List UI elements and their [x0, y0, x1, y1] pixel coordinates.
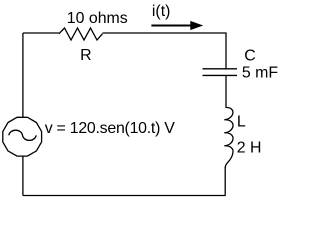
- svg-text:i(t): i(t): [152, 3, 171, 20]
- svg-text:2 H: 2 H: [237, 140, 262, 157]
- wire left lower (source to bottom wire): [22, 157, 24, 196]
- inductor L coil: [224, 108, 233, 169]
- svg-text:R: R: [80, 47, 91, 64]
- bottom wire: [23, 195, 226, 197]
- wire left upper (top wire to source): [22, 33, 24, 117]
- capacitor C top plate: [203, 68, 238, 70]
- wire right upper (top to capacitor): [225, 33, 227, 69]
- svg-text:v = 120.sen(10.t) V: v = 120.sen(10.t) V: [45, 120, 176, 137]
- wire top-left segment: [23, 32, 59, 34]
- resistor R: [59, 28, 103, 40]
- AC source V1 body (dodecagon circle): [3, 117, 42, 156]
- svg-text:5 mF: 5 mF: [242, 65, 278, 82]
- svg-text:10 ohms: 10 ohms: [67, 10, 128, 27]
- wire inductor to bottom: [224, 167, 226, 196]
- wire capacitor to inductor: [225, 75, 227, 108]
- capacitor C bottom plate: [203, 74, 238, 76]
- svg-text:C: C: [244, 48, 255, 65]
- AC source sine wave: [9, 130, 36, 140]
- svg-text:L: L: [237, 114, 246, 131]
- current direction arrow: [151, 25, 192, 27]
- wire top-right segment: [103, 32, 227, 34]
